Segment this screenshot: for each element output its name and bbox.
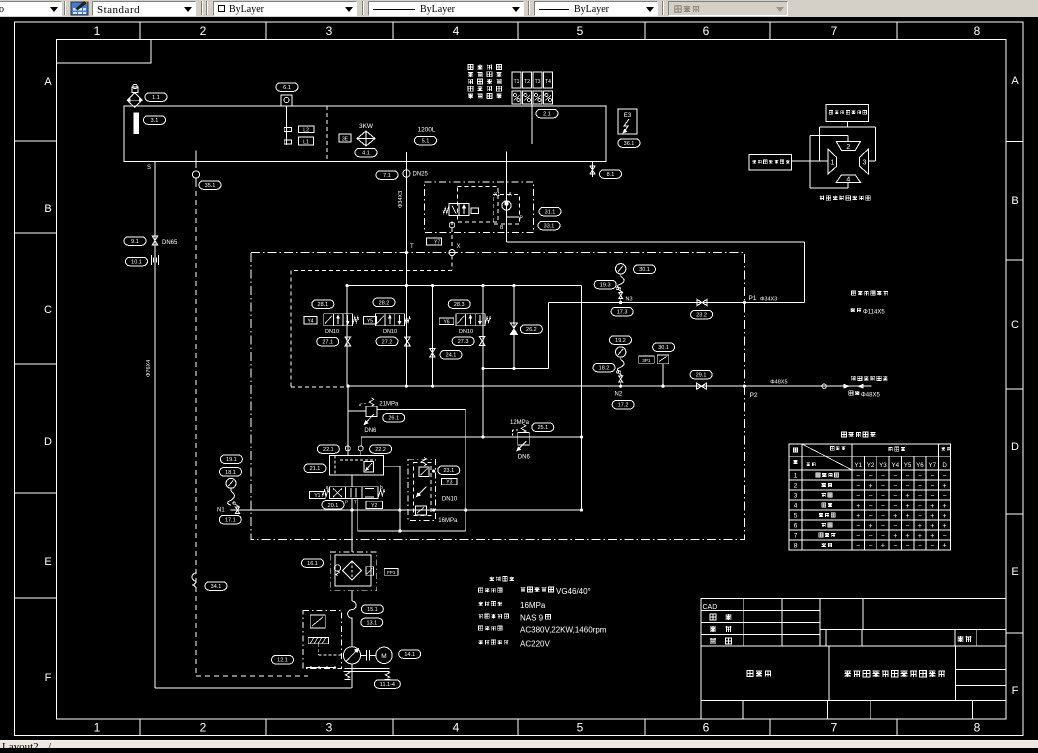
node X on enclosure bbox=[449, 250, 455, 256]
mill roller 2 bbox=[836, 141, 860, 151]
svg-text:24.1: 24.1 bbox=[446, 353, 457, 359]
svg-text:T: T bbox=[354, 500, 357, 505]
wire: bottom return run bbox=[155, 687, 351, 689]
svg-text:+: + bbox=[856, 513, 860, 520]
shutoff valve 23.2 bbox=[697, 299, 707, 305]
svg-text:11.1-4: 11.1-4 bbox=[380, 682, 395, 688]
label 15.1 bbox=[361, 605, 383, 614]
label 24.1 bbox=[440, 350, 462, 359]
tank internal partition (dashed) bbox=[326, 106, 328, 161]
wire: manifold pressure rail bbox=[346, 284, 582, 287]
svg-text:C: C bbox=[1011, 319, 1019, 331]
svg-text:−: − bbox=[856, 493, 860, 500]
pump 11 bbox=[343, 647, 360, 664]
svg-text:+: + bbox=[943, 543, 947, 550]
svg-text:−: − bbox=[930, 493, 934, 500]
svg-text:19.3: 19.3 bbox=[600, 282, 611, 288]
wire: leakage drain (dashed) bbox=[196, 182, 308, 676]
svg-text:X: X bbox=[457, 244, 461, 250]
label 1.1 bbox=[145, 93, 167, 102]
title block design row bbox=[710, 614, 731, 620]
svg-text:9.1: 9.1 bbox=[131, 239, 139, 245]
svg-text:8: 8 bbox=[974, 24, 981, 38]
wire: B line to P1 riser bbox=[507, 232, 805, 302]
level switch L1 bbox=[284, 137, 313, 146]
wire: valve3 drop bbox=[482, 286, 484, 437]
svg-text:4: 4 bbox=[453, 24, 460, 38]
svg-text:16MPa: 16MPa bbox=[520, 601, 546, 610]
svg-text:−: − bbox=[918, 513, 922, 520]
svg-text:5.1: 5.1 bbox=[422, 138, 430, 144]
svg-text:−: − bbox=[856, 523, 860, 530]
check valve 26.2 bbox=[510, 323, 517, 334]
label 25.1 bbox=[532, 423, 554, 432]
svg-text:29.1: 29.1 bbox=[696, 373, 707, 379]
wire: manifold return rail bbox=[346, 385, 744, 388]
svg-text:6.1: 6.1 bbox=[283, 85, 291, 91]
label 29.1 bbox=[690, 370, 712, 379]
svg-text:17.3: 17.3 bbox=[617, 310, 628, 316]
svg-text:Φ48X5: Φ48X5 bbox=[770, 380, 787, 386]
svg-text:DN6: DN6 bbox=[518, 455, 531, 461]
label 5.1 bbox=[415, 136, 437, 145]
svg-text:33.1: 33.1 bbox=[544, 223, 555, 229]
svg-text:19.2: 19.2 bbox=[615, 338, 626, 344]
svg-text:3.1: 3.1 bbox=[151, 118, 159, 124]
svg-text:T4: T4 bbox=[545, 79, 551, 85]
wire: tank drain T line bbox=[405, 152, 407, 286]
canvas bottom edge bbox=[0, 739, 1038, 741]
pilot valve 2/2 bbox=[443, 204, 479, 216]
node T bbox=[405, 244, 414, 254]
node 22.2 port bbox=[358, 437, 363, 456]
svg-text:T3: T3 bbox=[535, 79, 541, 85]
instrument list vertical notes bbox=[468, 65, 501, 99]
svg-text:−: − bbox=[893, 473, 897, 480]
svg-text:18.2: 18.2 bbox=[599, 366, 610, 372]
solenoid valve Y5 bbox=[376, 314, 411, 326]
svg-text:Y6: Y6 bbox=[443, 319, 449, 325]
label FP1 bbox=[384, 569, 398, 576]
border: revision box bbox=[57, 40, 152, 63]
size DN6 relief1 bbox=[364, 428, 377, 434]
svg-text:Y3: Y3 bbox=[446, 480, 452, 486]
svg-text:CAD: CAD bbox=[703, 604, 718, 611]
svg-text:Y4: Y4 bbox=[307, 318, 313, 324]
wire: pump discharge riser bbox=[351, 475, 353, 552]
svg-text:+: + bbox=[906, 503, 910, 510]
label 17.2 bbox=[612, 400, 634, 409]
tech note line5 bbox=[479, 639, 551, 648]
svg-text:−: − bbox=[893, 543, 897, 550]
svg-text:D: D bbox=[942, 462, 947, 469]
svg-text:34.1: 34.1 bbox=[211, 584, 222, 590]
svg-text:DN10: DN10 bbox=[459, 329, 473, 335]
svg-text:+: + bbox=[869, 483, 873, 490]
label 2.1 bbox=[536, 109, 558, 118]
svg-text:10.1: 10.1 bbox=[131, 259, 142, 265]
svg-text:−: − bbox=[869, 513, 873, 520]
svg-text:28.1: 28.1 bbox=[318, 302, 329, 308]
wire: valve1 drop bbox=[346, 286, 348, 387]
label 7.1 bbox=[376, 171, 429, 180]
thermometer 6.1 body bbox=[281, 95, 292, 145]
svg-text:L1: L1 bbox=[303, 140, 309, 146]
label 4.1 bbox=[355, 148, 377, 157]
svg-text:B: B bbox=[44, 203, 51, 215]
mill diagram: top box bbox=[826, 105, 869, 122]
svg-text:M: M bbox=[381, 653, 386, 660]
label Y5 bbox=[364, 317, 377, 325]
svg-text:3KW: 3KW bbox=[359, 123, 374, 130]
svg-text:−: − bbox=[943, 493, 947, 500]
svg-text:5: 5 bbox=[577, 721, 584, 735]
border: zone letters left bbox=[44, 76, 52, 684]
svg-text:31.1: 31.1 bbox=[545, 209, 556, 215]
drain cock 35.1 bbox=[192, 151, 199, 183]
label 28.3 bbox=[448, 300, 470, 309]
port P1 label bbox=[749, 295, 778, 303]
svg-text:23.1: 23.1 bbox=[443, 468, 454, 474]
label 28.1 bbox=[312, 300, 334, 309]
svg-text:3: 3 bbox=[326, 721, 333, 735]
temperature switches T1-T4 bbox=[512, 72, 553, 104]
temperature probe line bbox=[531, 104, 533, 144]
drawing title cell bbox=[844, 670, 945, 677]
school name cell bbox=[747, 670, 771, 676]
svg-text:T2: T2 bbox=[524, 79, 530, 85]
svg-text:3: 3 bbox=[863, 160, 867, 167]
svg-text:F: F bbox=[45, 672, 52, 684]
tank 1200L oil reservoir bbox=[124, 106, 606, 162]
svg-text:P: P bbox=[345, 500, 348, 505]
shutoff valve 9.1 DN65 bbox=[152, 236, 158, 245]
label 19.3 bbox=[594, 280, 616, 289]
label 31.1 bbox=[539, 207, 561, 216]
svg-text:2: 2 bbox=[794, 483, 798, 490]
svg-text:N3: N3 bbox=[626, 297, 633, 303]
svg-text:4.1: 4.1 bbox=[362, 150, 370, 156]
svg-text:18.1: 18.1 bbox=[225, 470, 236, 476]
border: zone dividers top bbox=[140, 22, 897, 39]
filter 16.1 bbox=[330, 552, 377, 601]
svg-text:+: + bbox=[856, 503, 860, 510]
border: zone numbers bottom bbox=[94, 721, 981, 735]
svg-text:−: − bbox=[856, 533, 860, 540]
svg-text:27.1: 27.1 bbox=[322, 340, 333, 346]
svg-text:−: − bbox=[881, 473, 885, 480]
label 27.1 bbox=[317, 337, 339, 346]
setting 16MPa bbox=[438, 518, 458, 524]
svg-text:E: E bbox=[1011, 566, 1018, 578]
svg-text:28.3: 28.3 bbox=[454, 302, 465, 308]
label 6.1 bbox=[276, 83, 298, 92]
svg-text:17.1: 17.1 bbox=[225, 518, 236, 524]
svg-text:−: − bbox=[906, 543, 910, 550]
label 28.2 bbox=[373, 298, 395, 307]
border: zone dividers left bbox=[15, 141, 56, 598]
svg-text:A: A bbox=[44, 76, 52, 88]
svg-text:A: A bbox=[1011, 75, 1019, 87]
label Y6 bbox=[439, 318, 454, 325]
svg-text:−: − bbox=[856, 543, 860, 550]
svg-text:Φ76X4: Φ76X4 bbox=[146, 360, 152, 377]
svg-text:D: D bbox=[44, 436, 52, 448]
wire: P1 supply bbox=[548, 301, 804, 304]
breather filter 1.1 bbox=[127, 84, 142, 107]
wire: P2 extension hose bbox=[744, 384, 871, 388]
svg-text:AC220V: AC220V bbox=[520, 639, 550, 648]
orifice valve2 bbox=[405, 337, 411, 346]
directional valve Y1/Y2 bbox=[310, 485, 385, 505]
svg-text:5: 5 bbox=[794, 513, 798, 520]
label 17.1 bbox=[219, 515, 241, 524]
svg-text:S: S bbox=[147, 165, 151, 171]
svg-text:7: 7 bbox=[831, 24, 838, 38]
svg-text:−: − bbox=[918, 543, 922, 550]
label 9.1 bbox=[124, 237, 178, 246]
svg-text:3: 3 bbox=[794, 493, 798, 500]
solenoid block inner dashed bbox=[458, 187, 520, 224]
svg-text:1.1: 1.1 bbox=[152, 95, 160, 101]
globe valve 7.1 DN25 bbox=[403, 170, 410, 177]
svg-text:7.1: 7.1 bbox=[383, 173, 391, 179]
svg-text:DN65: DN65 bbox=[162, 240, 178, 246]
border: zone letters right bbox=[1011, 75, 1019, 697]
svg-text:12MPa: 12MPa bbox=[510, 420, 530, 426]
svg-text:P2: P2 bbox=[750, 392, 758, 399]
title block date cell bbox=[958, 636, 972, 642]
svg-text:6: 6 bbox=[794, 523, 798, 530]
label 36.1 bbox=[618, 139, 640, 148]
svg-text:2: 2 bbox=[200, 24, 207, 38]
label 27.2 bbox=[376, 337, 398, 346]
svg-text:−: − bbox=[869, 533, 873, 540]
svg-text:−: − bbox=[881, 493, 885, 500]
svg-text:b: b bbox=[380, 485, 383, 491]
size DN10 compensator bbox=[442, 496, 458, 502]
size DN10 valve2 bbox=[383, 329, 397, 335]
svg-text:−: − bbox=[881, 513, 885, 520]
pressure gauge N1 bbox=[217, 478, 239, 513]
union 10.1 bbox=[152, 255, 159, 265]
svg-text:−: − bbox=[918, 483, 922, 490]
tank volume 1200L bbox=[417, 127, 435, 134]
svg-text:−: − bbox=[881, 533, 885, 540]
svg-text:30.1: 30.1 bbox=[658, 345, 669, 351]
svg-text:27.2: 27.2 bbox=[382, 339, 393, 345]
svg-text:D: D bbox=[1011, 441, 1019, 453]
svg-text:a: a bbox=[326, 485, 329, 491]
wire: pump pressure drop bbox=[345, 386, 350, 455]
action table grid bbox=[789, 444, 951, 550]
svg-text:−: − bbox=[881, 503, 885, 510]
svg-text:12.1: 12.1 bbox=[277, 658, 288, 664]
svg-text:+: + bbox=[893, 533, 897, 540]
svg-text:−: − bbox=[869, 473, 873, 480]
svg-text:Φ48X5: Φ48X5 bbox=[861, 392, 880, 398]
label 14.1 bbox=[399, 650, 421, 659]
label 34.1 bbox=[205, 582, 227, 591]
svg-text:C: C bbox=[44, 304, 52, 316]
tech notes title bbox=[490, 577, 514, 581]
svg-text:+: + bbox=[930, 533, 934, 540]
svg-text:4: 4 bbox=[846, 176, 850, 183]
wire: valve drain jog bbox=[358, 466, 466, 532]
svg-text:35.1: 35.1 bbox=[205, 183, 216, 189]
label 17.3 bbox=[611, 307, 633, 316]
svg-text:X1: X1 bbox=[494, 192, 500, 198]
motor M bbox=[376, 647, 392, 663]
pressure gauge N2 bbox=[615, 347, 626, 398]
tech note line3 bbox=[479, 613, 551, 622]
wire: suction line S bbox=[147, 162, 155, 689]
svg-text:5: 5 bbox=[577, 24, 584, 38]
block port labels bbox=[494, 192, 524, 231]
pressure gauge 30.1 N3 bbox=[616, 264, 633, 303]
svg-text:+: + bbox=[943, 483, 947, 490]
svg-text:8: 8 bbox=[794, 543, 798, 550]
svg-text:22.2: 22.2 bbox=[375, 447, 386, 453]
svg-text:8: 8 bbox=[974, 721, 981, 735]
label 18.2 bbox=[593, 363, 615, 372]
svg-text:+: + bbox=[869, 523, 873, 530]
svg-text:−: − bbox=[893, 493, 897, 500]
svg-text:−: − bbox=[856, 473, 860, 480]
svg-text:13.1: 13.1 bbox=[366, 620, 377, 626]
label 8.1 bbox=[600, 170, 622, 179]
label 16.1 bbox=[302, 559, 324, 568]
svg-text:−: − bbox=[881, 483, 885, 490]
svg-text:−: − bbox=[869, 503, 873, 510]
tech note line2 bbox=[479, 601, 546, 610]
heater 3E 3KW bbox=[339, 123, 375, 146]
wire: bypass drop bbox=[432, 286, 434, 387]
svg-text:Φ34X3: Φ34X3 bbox=[398, 191, 404, 208]
svg-text:Y3: Y3 bbox=[879, 462, 887, 469]
pressure switch 3P1 bbox=[639, 355, 669, 388]
svg-text:T: T bbox=[410, 244, 414, 250]
svg-text:Y4: Y4 bbox=[891, 462, 899, 469]
label 18.1 bbox=[220, 468, 242, 477]
svg-text:−: − bbox=[918, 503, 922, 510]
svg-text:+: + bbox=[906, 533, 910, 540]
mill roller 3 bbox=[860, 149, 869, 174]
station enclosure (dash-dot) bbox=[251, 253, 744, 540]
relief valve 26.1 21MPa bbox=[348, 398, 377, 425]
svg-text:Y5: Y5 bbox=[904, 462, 912, 469]
compensator cartridge bbox=[415, 458, 435, 516]
svg-text:+: + bbox=[906, 493, 910, 500]
svg-text:Y1: Y1 bbox=[854, 462, 862, 469]
svg-text:19.1: 19.1 bbox=[226, 457, 237, 463]
svg-text:DN6: DN6 bbox=[364, 428, 377, 434]
label 22.1 bbox=[317, 445, 339, 454]
label 19.1 bbox=[220, 455, 242, 464]
svg-text:VG46/40°: VG46/40° bbox=[556, 587, 591, 596]
svg-text:−: − bbox=[918, 493, 922, 500]
solenoid valve Y6 bbox=[456, 314, 491, 326]
svg-text:−: − bbox=[943, 533, 947, 540]
svg-text:Y5: Y5 bbox=[367, 318, 373, 324]
solenoid block enclosure bbox=[425, 182, 534, 232]
orifice valve1 bbox=[345, 337, 351, 346]
svg-text:14.1: 14.1 bbox=[404, 652, 415, 658]
svg-text:1: 1 bbox=[831, 160, 835, 167]
size DN6 relief2 bbox=[518, 455, 531, 461]
svg-text:21.1: 21.1 bbox=[310, 466, 321, 472]
pipe spec suction bbox=[146, 360, 152, 377]
svg-text:26.2: 26.2 bbox=[526, 327, 537, 333]
manifold dashed boundary bbox=[291, 256, 452, 387]
coupling bbox=[361, 650, 376, 661]
svg-text:DN10: DN10 bbox=[442, 496, 458, 502]
label 26.1 bbox=[383, 413, 405, 422]
size DN10 valve1 bbox=[325, 329, 339, 335]
svg-text:1: 1 bbox=[94, 721, 101, 735]
svg-text:30.1: 30.1 bbox=[639, 267, 650, 273]
svg-text:2.1: 2.1 bbox=[543, 111, 551, 117]
svg-text:DN10: DN10 bbox=[325, 329, 339, 335]
svg-text:−: − bbox=[881, 523, 885, 530]
svg-text:+: + bbox=[893, 513, 897, 520]
svg-text:7: 7 bbox=[794, 533, 798, 540]
label 23.1 bbox=[438, 466, 460, 475]
title block audit row bbox=[710, 626, 731, 632]
svg-text:+: + bbox=[918, 523, 922, 530]
svg-text:Y7: Y7 bbox=[929, 462, 937, 469]
level gauge 3.1 bbox=[134, 113, 139, 134]
svg-text:N1: N1 bbox=[217, 508, 225, 514]
action table body bbox=[794, 473, 947, 550]
pilot control head 21.1 bbox=[329, 456, 383, 475]
label 21MPa bbox=[379, 402, 399, 408]
orifice valve3 bbox=[479, 336, 485, 345]
mill roller 1 bbox=[828, 149, 837, 174]
label 11.1-4 bbox=[374, 680, 400, 689]
wire: relief1 drain bbox=[377, 410, 467, 532]
action table header bbox=[794, 444, 951, 470]
wire: check valve drop bbox=[513, 286, 515, 369]
svg-text:+: + bbox=[930, 503, 934, 510]
svg-text:Y6: Y6 bbox=[916, 462, 924, 469]
electric heater E3 bbox=[618, 109, 637, 134]
svg-text:2: 2 bbox=[200, 721, 207, 735]
title block frame bbox=[701, 599, 1006, 720]
svg-text:DN10: DN10 bbox=[383, 329, 397, 335]
label 12.1 bbox=[272, 655, 294, 664]
svg-text:1: 1 bbox=[94, 24, 101, 38]
svg-text:P1: P1 bbox=[749, 295, 757, 302]
svg-text:23.2: 23.2 bbox=[696, 312, 707, 318]
svg-text:NAS 9: NAS 9 bbox=[520, 613, 544, 622]
label 26.2 bbox=[520, 325, 542, 334]
label Y7 bbox=[427, 238, 442, 246]
svg-text:+: + bbox=[930, 513, 934, 520]
svg-text:15.1: 15.1 bbox=[367, 607, 378, 613]
solenoid valve Y4 bbox=[324, 314, 359, 326]
mill roller 4 bbox=[836, 175, 860, 183]
svg-text:−: − bbox=[918, 473, 922, 480]
svg-text:25.1: 25.1 bbox=[537, 425, 548, 431]
label 21.1 bbox=[304, 464, 326, 473]
label 12MPa bbox=[510, 420, 530, 426]
label Y4 bbox=[304, 317, 317, 325]
label 3.1 bbox=[144, 116, 166, 125]
svg-text:−: − bbox=[893, 483, 897, 490]
svg-text:Φ114X5: Φ114X5 bbox=[863, 309, 885, 315]
svg-text:Y2: Y2 bbox=[867, 462, 875, 469]
